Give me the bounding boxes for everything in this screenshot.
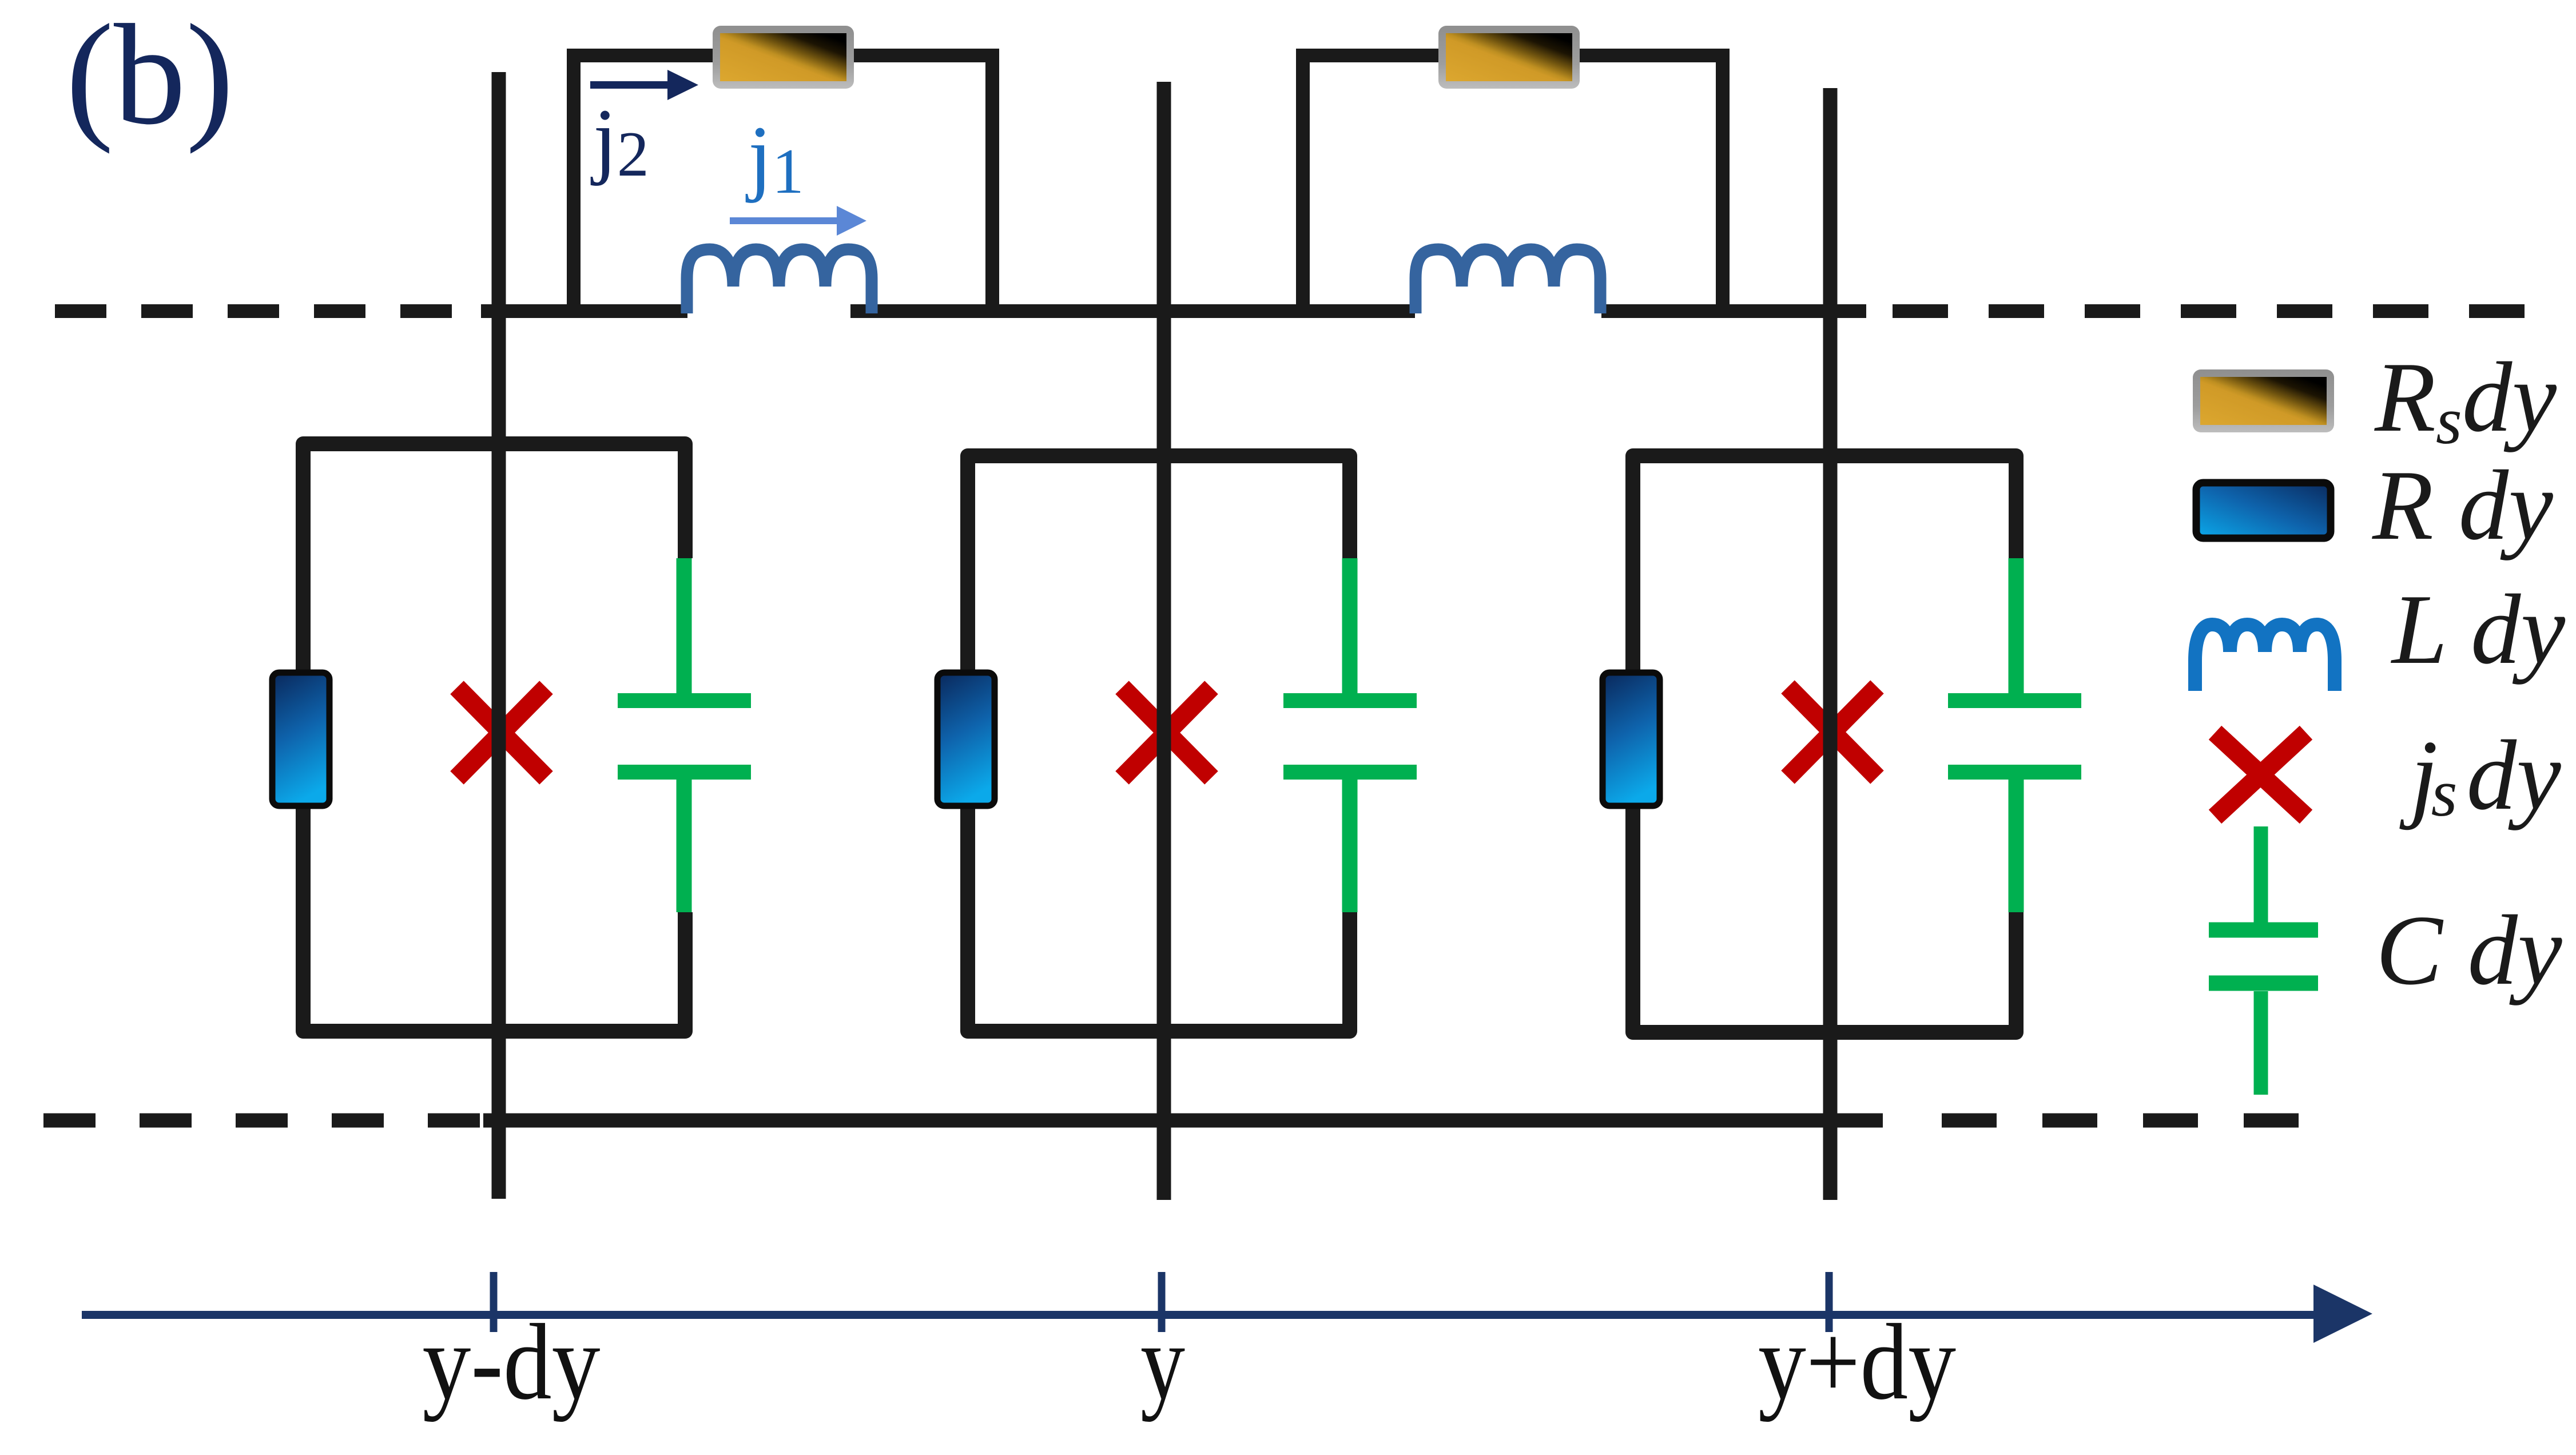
wire: top conductor segment L1 to L2 [850, 304, 1415, 318]
resistor Rs1 (surface resistance, loop 1) [713, 26, 854, 89]
capacitor C3 [1948, 558, 2081, 912]
wire: top conductor segment rail1 to inductor L1 [481, 304, 687, 318]
wire break for capacitor C1 branch [674, 558, 695, 912]
wire: vertical rail at y (node y) [1157, 82, 1171, 1200]
josephson junction JJ3 (js dy) [1788, 687, 1877, 777]
wire: top conductor segment L2 to end [1601, 304, 1866, 318]
svg-text:R dy: R dy [2372, 450, 2553, 560]
legend capacitor C symbol [2209, 826, 2318, 1095]
resistor Rs2 (surface resistance, loop 2) [1438, 26, 1580, 89]
wire: vertical rail at y+dy (node y+dy) [1823, 88, 1838, 1200]
legend junction X symbol [2215, 733, 2306, 817]
bottom dashed boundary right [1942, 1114, 2299, 1128]
svg-text:L dy: L dy [2390, 574, 2565, 685]
block 1 box [303, 444, 685, 1031]
svg-text:y: y [1140, 1302, 1185, 1422]
svg-text:y-dy: y-dy [423, 1302, 601, 1422]
top dashed boundary left [55, 304, 452, 318]
wire: loop 1 (left edge, top edge, right edge) [574, 55, 992, 311]
wire: loop 2 (left edge, top edge, right edge) [1303, 55, 1723, 311]
axis main line [82, 1311, 2322, 1319]
legend resistor R symbol [2196, 483, 2331, 538]
svg-text:(b): (b) [66, 0, 234, 154]
wire: bottom conductor [483, 1114, 1883, 1128]
inductor L2 [1416, 249, 1600, 313]
block 3 box [1633, 456, 2016, 1032]
svg-text:y+dy: y+dy [1758, 1302, 1956, 1422]
capacitor C2 [1283, 558, 1417, 912]
svg-text:C dy: C dy [2376, 895, 2562, 1005]
axis tick y+dy [1826, 1272, 1833, 1332]
legend resistor Rs symbol [2193, 369, 2334, 432]
capacitor C1 [618, 558, 751, 912]
top dashed boundary right [1893, 304, 2525, 318]
wire break for capacitor C3 branch [2006, 558, 2027, 912]
legend inductor L symbol [2195, 625, 2335, 691]
svg-text:jsdy: jsdy [2399, 719, 2561, 830]
josephson junction JJ2 (js dy) [1122, 687, 1211, 778]
bottom dashed boundary left [43, 1114, 480, 1128]
axis tick y [1158, 1272, 1166, 1332]
current arrow j1 [730, 206, 866, 236]
josephson junction JJ1 (js dy) [457, 687, 546, 778]
resistor R3 (blue, block 3) [1603, 673, 1660, 806]
resistor R2 (blue, block 2) [937, 673, 995, 806]
inductor L1 [687, 249, 872, 313]
resistor R1 (blue, block 1) [272, 673, 329, 806]
axis tick y-dy [490, 1272, 498, 1332]
wire break for capacitor C2 branch [1340, 558, 1361, 912]
axis arrowhead [2313, 1285, 2372, 1343]
block 2 box [968, 456, 1350, 1031]
svg-text:Rsdy: Rsdy [2374, 341, 2557, 458]
wire: vertical rail at y-dy (node y-dy) [492, 72, 506, 1199]
current arrow j2 [590, 70, 698, 100]
